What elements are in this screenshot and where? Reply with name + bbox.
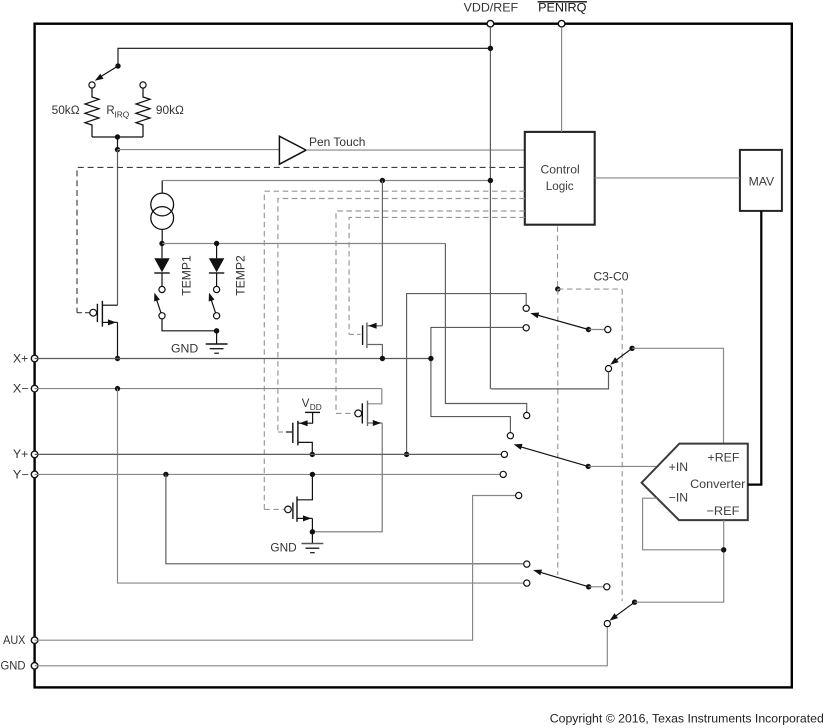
label VDD/REF [464,0,518,14]
diode D1 TEMP1 [154,258,169,286]
switch SW3 arm [530,313,588,330]
wire Y+ rail [35,453,502,455]
contact switch A bottom [523,325,529,331]
wire X+ riser to switch A bottom contact [431,327,523,432]
transistor Q1 source lead [102,319,117,358]
transistor Q3 gate bar [292,423,294,443]
wire pen touch input [118,149,280,151]
wire VDD/REF to RIRQ switch [118,48,490,66]
label GND temp [171,344,198,356]
svg-text:GND: GND [1,661,26,673]
label +REF pin [708,450,740,464]
wire current source top lead [161,181,163,194]
node pen touch tap [115,147,120,152]
contact switch A top [523,305,529,311]
wire TEMP2 anode [216,244,218,259]
label 90kOhm [156,105,184,117]
svg-text:TEMP1: TEMP1 [181,255,193,296]
contact TEMP2 switch bottom [214,313,220,319]
terminal AUX [31,637,38,644]
control dashed bus from control logic [557,226,559,289]
wire -IN loop [643,498,724,550]
transistor Q1 gate bar [96,304,98,322]
wire TEMP1 anode [161,244,163,259]
switch SW7 arm [610,602,635,621]
supply bar VDD [305,411,320,413]
label TEMP1 [181,255,193,296]
node TEMP2 tap [214,241,219,246]
transistor Q1 gate bubble [90,309,97,316]
wire Y+ riser to switch A top contact [407,294,527,455]
transistor Q2 channel bar [366,322,368,348]
node -REF/-IN join [721,547,726,552]
node Q2 source on X+ [380,356,385,361]
block U3 Converter [642,444,748,520]
wire SW3 pole stub [589,329,605,331]
switch SW2a TEMP1 arm [154,293,161,313]
control dashed line to Q1 gate [77,167,525,312]
transistor Q2 drain lead [367,181,383,329]
svg-text:GND: GND [270,542,296,554]
terminal Y+ [31,451,38,458]
wire current source bottom lead [161,229,163,243]
node Q5 source gnd node [310,529,315,534]
transistor Q5 gate bar [292,503,294,520]
node SW5 pole [586,464,591,469]
wire SW4 pole to +REF [632,348,723,443]
node temp sense node [159,241,164,246]
wire SW6 pole stub [589,586,604,588]
switch SW6 arm [533,570,589,587]
block U1 Control Logic [525,132,595,225]
control dashed line to Q3 gate [278,199,525,433]
wire temp sense riser to mux [445,244,526,413]
wire TEMP1 switch to gnd rail [162,319,217,331]
control dashed line to Q4 gate [336,211,525,413]
node supply rail end on VDD rail [488,178,493,183]
contact TEMP2 switch top [214,286,220,292]
label 50kOhm [52,105,80,117]
node switch A riser on Y+ [404,452,409,457]
wire SW5 pole to +IN [588,465,657,467]
contact TEMP1 switch bottom [159,313,165,319]
terminal Y- [31,471,38,478]
label Converter [690,477,745,491]
contact 50k side [89,82,95,88]
svg-text:Pen Touch: Pen Touch [309,137,365,149]
terminal GND [31,663,38,670]
transistor Q2 gate bar [362,325,364,345]
copyright note [550,711,824,725]
svg-text:IRQ: IRQ [114,109,129,119]
ground symbol Q5 [302,544,324,553]
label PENIRQ (active low, overbar) [538,0,587,14]
current source I1 [151,193,174,229]
svg-text:+REF: +REF [708,450,740,464]
transistor Q4 drain lead from X- [368,389,382,404]
wire Y- rail [35,473,501,475]
transistor Q4 channel bar [367,401,369,427]
node SW4 pole [629,346,634,351]
svg-text:MAV: MAV [749,175,775,189]
label Control Logic [541,162,580,193]
svg-text:X−: X− [13,383,30,395]
contact +IN mux Y+ input [501,451,507,457]
terminal VDD/REF [487,20,494,27]
transistor Q5 source lead [297,515,312,531]
transistor Q3 gate lead [286,431,293,433]
resistor R 90k zigzag [136,88,150,137]
label C3-C0 [593,271,628,283]
switch SW4 arm [610,348,632,364]
node C3-C0 corner [555,286,560,291]
node X- riser tap [115,386,120,391]
wire GND rail [35,627,608,666]
node Q3 source on Y+ [310,452,315,457]
wire PENIRQ to control logic [561,27,563,132]
node SW3 pole [586,327,591,332]
svg-text:Y−: Y− [13,469,30,481]
transistor Q4 source lead [312,420,382,532]
dashed bus C3-C0 top edge [558,288,622,290]
terminal X- [31,385,38,392]
dashed bus C3-C0 left leg [557,289,559,575]
wire control logic to MAV [595,177,740,179]
transistor Q5 gate bubble [285,506,292,513]
node X+ rail riser junction [428,356,433,361]
svg-text:V: V [302,398,310,410]
svg-text:Logic: Logic [546,179,574,193]
wire X- riser to -IN mux [118,389,527,583]
switch SW1 RIRQ select arm [95,66,118,81]
transistor Q4 gate bubble [355,410,362,417]
node VDD/REF top tap [488,46,493,51]
wire X+ rail [35,358,431,360]
buffer A1 Pen Touch triangle [279,136,306,164]
wire resistor bottoms join [92,136,143,138]
wire tap down to Q1 drain [117,150,119,306]
label X- [13,383,30,395]
contact +IN mux AUX input [516,492,522,498]
diode D2 TEMP2 [209,258,224,286]
transistor Q3 channel bar [297,421,299,446]
contact SW6 spare [604,584,610,590]
svg-text:GND: GND [171,344,198,356]
contact SW7 gnd [604,621,610,627]
svg-text:Copyright © 2016, Texas Instru: Copyright © 2016, Texas Instruments Inco… [550,711,824,725]
contact mux TEMP input [524,412,530,418]
node Y- riser tap [163,472,168,477]
switch SW2b TEMP2 arm [209,293,216,313]
wire temp gnd stub [216,331,218,344]
wire X- rail [35,388,382,390]
svg-text:X+: X+ [13,353,29,365]
node SW6 pole [586,584,591,589]
block U2 MAV [740,150,782,211]
control dashed line to Q2 gate [349,217,525,334]
transistor Q1 drain lead [102,304,117,306]
contact -IN mux Y- input [524,561,530,567]
terminal X+ [31,355,38,362]
label Y- [13,469,30,481]
dashed bus C3-C0 right leg [621,289,623,601]
wire AUX rail [35,496,516,641]
label AUX [3,635,26,647]
svg-text:90kΩ: 90kΩ [156,105,184,117]
transistor Q3 source lead [298,442,312,454]
svg-text:−IN: −IN [669,491,688,505]
wire VDD/REF rail down [489,27,491,389]
resistor R 50k zigzag [85,88,99,137]
transistor Q2 source lead [367,345,383,359]
wire pen touch output to control logic [306,149,525,151]
contact -IN mux X- input [524,580,530,586]
transistor Q1 channel bar [101,301,103,327]
label MAV [749,175,775,189]
label +IN pin [669,460,688,474]
node Q1 source on X+ [115,356,120,361]
transistor Q3 drain lead [298,412,313,426]
label GND q5 [270,542,296,554]
label GND pin [1,661,26,673]
svg-text:C3-C0: C3-C0 [593,271,628,283]
svg-text:Converter: Converter [690,477,745,491]
wire RIRQ node down to pen-touch tap [117,137,119,150]
contact SW3 spare [605,326,611,332]
contact SW4 to VDD rail [605,366,611,372]
wire SW4 contact to VDD/REF rail [491,372,609,389]
switch SW5 arm [514,444,589,467]
transistor Q5 drain lead [297,474,312,499]
svg-text:50kΩ: 50kΩ [52,105,80,117]
transistor Q5 channel bar [296,497,298,522]
label Y+ [13,449,29,461]
svg-text:AUX: AUX [3,635,26,647]
label -REF pin [707,504,740,518]
node RIRQ switch pivot [115,63,120,68]
wire -REF rail down [635,520,724,602]
wire current source supply rail [162,180,490,182]
svg-text:TEMP2: TEMP2 [235,255,247,296]
node Q5 drain on Y- [310,472,315,477]
wire Y- riser to -IN mux [166,474,527,563]
terminal PENIRQ [558,20,565,27]
contact TEMP1 switch top [159,286,165,292]
svg-text:+IN: +IN [669,460,688,474]
wire converter to MAV [748,211,762,485]
label Pen Touch [309,137,365,149]
node Q2 drain tap [380,178,385,183]
wire temp sense horizontal [162,243,445,245]
ground symbol temp switches [206,344,228,353]
contact 90k side [140,82,146,88]
svg-text:VDD/REF: VDD/REF [464,0,518,14]
svg-text:−REF: −REF [707,504,740,518]
transistor Q4 gate bar [361,403,363,423]
svg-text:DD: DD [310,402,322,412]
svg-text:Control: Control [541,162,580,176]
contact +IN mux X+ input [507,433,513,439]
wire Q5 node gnd stub [311,532,313,544]
control dashed line to Q5 gate [264,191,525,509]
label TEMP2 [235,255,247,296]
contact +IN mux Y- input [500,471,506,477]
label X+ [13,353,29,365]
node resistor join [115,134,120,139]
label RIRQ [106,105,129,120]
label VDD [302,398,322,412]
node SW7 pole [632,600,637,605]
label -IN pin [669,491,688,505]
node temp gnd join [214,328,219,333]
svg-text:Y+: Y+ [13,449,29,461]
